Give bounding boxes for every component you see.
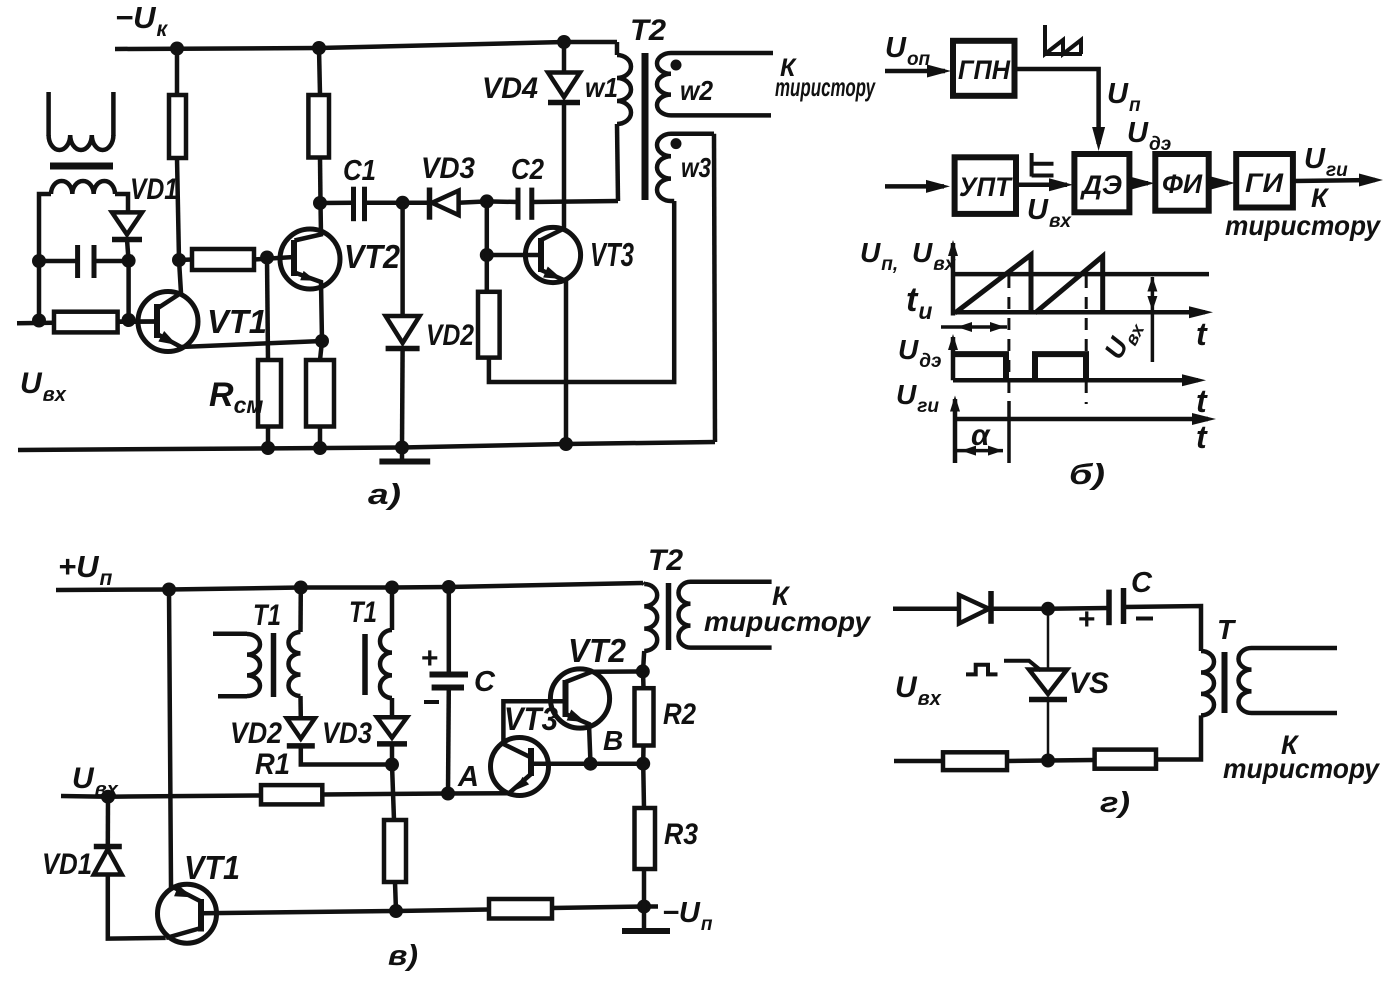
svg-text:T2: T2 [648,544,683,577]
svg-text:R2: R2 [663,698,696,731]
svg-text:тиристору: тиристору [1223,753,1380,784]
svg-text:К: К [1311,183,1330,213]
svg-text:VT1: VT1 [207,303,267,340]
svg-text:VD4: VD4 [482,72,538,105]
svg-text:г): г) [1100,787,1130,819]
svg-text:T2: T2 [630,14,666,47]
svg-text:VD3: VD3 [421,152,475,185]
svg-text:VD2: VD2 [426,319,474,352]
svg-text:t: t [1196,316,1208,352]
svg-text:t: t [1196,419,1208,455]
svg-text:тиристору: тиристору [704,606,871,637]
svg-text:T: T [1217,614,1237,645]
svg-text:VD2: VD2 [230,717,282,750]
svg-text:C1: C1 [343,155,376,187]
svg-text:ДЭ: ДЭ [1080,170,1122,200]
svg-text:R3: R3 [664,818,698,851]
svg-text:t: t [1196,383,1208,419]
svg-text:C2: C2 [511,154,544,186]
svg-text:VT3: VT3 [590,236,634,273]
svg-text:ГПН: ГПН [958,55,1010,85]
svg-text:VD3: VD3 [322,717,372,750]
svg-text:A: A [457,761,479,793]
svg-text:в): в) [388,940,418,972]
svg-text:ФИ: ФИ [1162,169,1203,199]
svg-text:VT1: VT1 [184,849,240,886]
svg-text:+: + [421,642,439,675]
svg-text:B: B [603,725,623,756]
svg-text:VT2: VT2 [344,238,401,275]
svg-text:тиристору: тиристору [775,72,876,102]
svg-text:+: + [1078,603,1096,636]
svg-text:C: C [474,666,496,698]
svg-text:VD1: VD1 [42,848,92,881]
svg-text:C: C [1131,567,1153,599]
svg-text:тиристору: тиристору [1225,210,1381,241]
svg-text:w2: w2 [680,75,713,106]
svg-text:T1: T1 [253,599,281,632]
svg-text:VT2: VT2 [568,632,627,669]
svg-text:а): а) [368,479,401,511]
svg-text:ГИ: ГИ [1245,168,1284,198]
svg-text:T1: T1 [349,596,377,629]
svg-text:б): б) [1069,459,1105,491]
svg-text:VD1: VD1 [130,173,178,206]
svg-text:w1: w1 [585,72,618,103]
svg-text:w3: w3 [681,152,711,183]
svg-text:VT3: VT3 [504,701,558,737]
svg-text:VS: VS [1069,667,1109,700]
svg-text:R1: R1 [255,748,290,781]
svg-text:УПТ: УПТ [959,172,1013,202]
